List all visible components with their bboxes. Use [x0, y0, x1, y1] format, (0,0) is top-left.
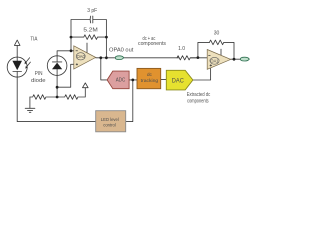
svg-text:PIN: PIN	[35, 71, 43, 77]
svg-text:OA0: OA0	[77, 54, 85, 60]
svg-text:components: components	[138, 41, 166, 47]
svg-text:5.2M: 5.2M	[83, 28, 97, 34]
svg-text:3 pF: 3 pF	[87, 8, 97, 14]
svg-text:TIA: TIA	[30, 37, 38, 43]
svg-text:DAC: DAC	[172, 78, 184, 85]
svg-text:OPA0 out: OPA0 out	[109, 47, 134, 53]
svg-text:LED level: LED level	[101, 117, 119, 123]
svg-text:1.0: 1.0	[178, 46, 185, 52]
svg-text:control: control	[103, 122, 116, 128]
svg-text:diode: diode	[31, 78, 46, 84]
svg-text:dc: dc	[147, 72, 153, 78]
svg-text:30: 30	[214, 31, 220, 37]
svg-text:ADC: ADC	[116, 78, 126, 84]
svg-text:Extracted dc: Extracted dc	[187, 92, 211, 98]
svg-text:tracking: tracking	[141, 78, 159, 84]
svg-text:components: components	[187, 98, 209, 104]
svg-text:OA1: OA1	[210, 59, 218, 65]
